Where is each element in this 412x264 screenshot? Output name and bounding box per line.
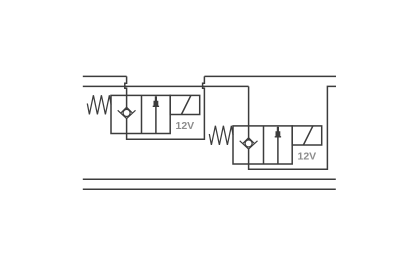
solenoid coil Y1 box [170, 95, 200, 114]
wire rail B (lower supply rail) [83, 85, 249, 87]
valve V1 check-valve seat and diamond [118, 107, 136, 118]
valve V2 flow arrow head [275, 127, 281, 138]
valve V2 position divider [263, 126, 265, 164]
valve V2 check-valve ball [245, 140, 252, 147]
valve V1 body [111, 95, 170, 133]
svg-text:12V: 12V [176, 120, 195, 132]
valve V1 return spring [87, 95, 111, 114]
valve V1 flow arrow head [153, 97, 159, 108]
solenoid coil Y2 box [292, 126, 322, 145]
valve V2 flow arrow shaft [277, 127, 279, 164]
wire W4 (valve V2 bottom port out to right stub) [249, 86, 336, 169]
wire rail A (upper-left supply rail) [83, 75, 127, 77]
wire rail C (upper-right rail) [204, 75, 336, 77]
valve V2 check-valve seat and diamond [240, 138, 258, 149]
wire W3 (rail B down into valve V2 top) [248, 86, 250, 139]
wire bottom rail 2 [83, 188, 336, 190]
valve V1 position divider [141, 95, 143, 133]
wire W1 (rail A down to valve V1 top, hop over rail B) [125, 76, 127, 109]
valve V2 return spring [209, 126, 233, 145]
solenoid coil Y1 diagonal [181, 95, 191, 114]
label 12V for solenoid Y1 [176, 120, 195, 132]
valve V2 body [233, 126, 292, 164]
valve V1 flow arrow shaft [155, 96, 157, 133]
label 12V for solenoid Y2 [298, 150, 317, 162]
wire bottom rail 1 [83, 178, 336, 180]
svg-text:12V: 12V [298, 150, 317, 162]
solenoid coil Y2 diagonal [303, 126, 313, 145]
wire W2 (valve V1 bottom port to rail C, hop over rail B) [127, 76, 205, 139]
valve V1 check-valve ball [123, 109, 130, 116]
